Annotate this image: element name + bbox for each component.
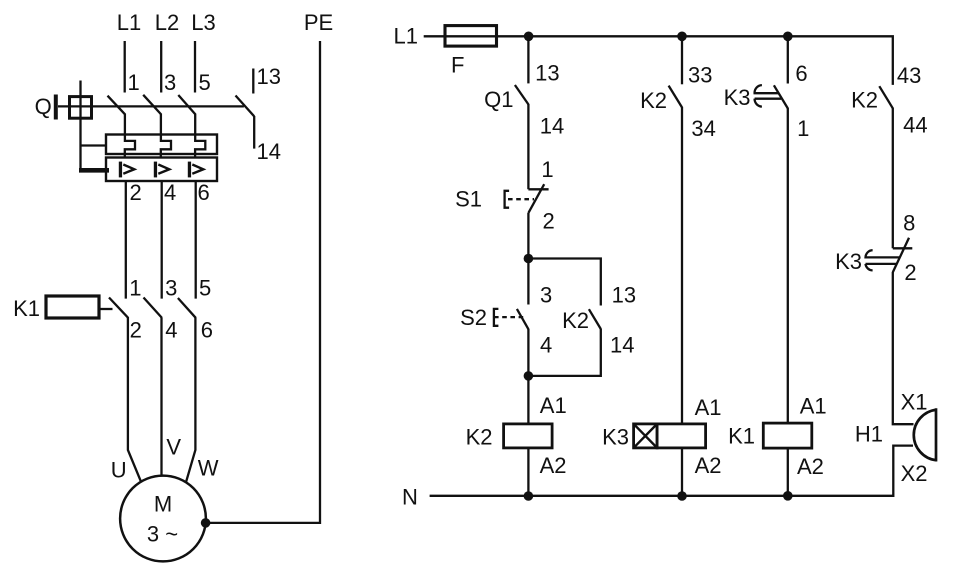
svg-text:X1: X1: [901, 390, 928, 415]
svg-text:1: 1: [129, 276, 141, 301]
svg-text:6: 6: [198, 180, 210, 205]
svg-text:6: 6: [795, 61, 807, 86]
wire N rail: [430, 446, 913, 496]
wire Q1 to S1: [527, 104, 529, 189]
contact K3 6-1 (NO delayed) blade: [774, 85, 788, 108]
svg-text:1: 1: [797, 116, 809, 141]
svg-text:V: V: [166, 435, 181, 460]
coil K3: [657, 424, 706, 448]
wire coil K2 to N: [527, 448, 529, 496]
contactor K1 main contact 1-2: [109, 298, 128, 318]
svg-text:K2: K2: [640, 88, 667, 113]
svg-text:14: 14: [257, 139, 281, 164]
svg-text:K2: K2: [466, 425, 493, 450]
motor M1 circle: [120, 476, 206, 562]
svg-text:A1: A1: [540, 393, 567, 418]
contact K2 43-44 blade: [879, 86, 893, 108]
svg-text:S2: S2: [460, 305, 487, 330]
horn H1: [914, 408, 936, 461]
svg-text:A2: A2: [797, 454, 824, 479]
svg-text:A2: A2: [540, 453, 567, 478]
svg-text:S1: S1: [455, 187, 482, 212]
svg-text:3: 3: [165, 276, 177, 301]
pushbutton S1 actuator bracket: [505, 191, 510, 208]
wire rail to Q1: [527, 36, 529, 83]
coil K1: [763, 423, 812, 448]
coil K2: [504, 424, 552, 448]
junction rail-K3 branch: [677, 32, 687, 42]
junction rail-K1 branch: [783, 32, 793, 42]
svg-text:F: F: [451, 53, 464, 78]
svg-text:K3: K3: [835, 249, 862, 274]
svg-text:33: 33: [688, 63, 712, 88]
pushbutton S2 actuator dashed link: [494, 316, 524, 318]
wire L2: [160, 41, 162, 93]
fuse F: [445, 26, 497, 46]
svg-text:K2: K2: [851, 88, 878, 113]
svg-text:3 ~: 3 ~: [147, 522, 178, 547]
svg-text:13: 13: [257, 64, 281, 89]
svg-text:W: W: [198, 456, 219, 481]
svg-text:2: 2: [543, 209, 555, 234]
contactor K1 main contact 3-4: [144, 298, 162, 318]
svg-text:L1: L1: [394, 24, 418, 49]
breaker Q handle bar: [54, 95, 58, 120]
wire K2 43-44 to K3 8: [892, 108, 894, 249]
svg-text:L1: L1: [117, 10, 141, 35]
svg-text:M: M: [154, 492, 172, 517]
pushbutton S1 (NC) crossbar: [528, 188, 548, 190]
contactor K1 main contact 5-6: [178, 298, 196, 318]
junction K2-N: [524, 491, 534, 501]
wire rail to K3 6: [787, 36, 789, 83]
svg-text:13: 13: [535, 61, 559, 86]
svg-text:Q1: Q1: [484, 87, 513, 112]
breaker Q pole 2 contact, pins 3-4: [143, 95, 171, 158]
pushbutton S2 actuator bracket: [494, 309, 499, 326]
breaker Q thermal release box: [106, 135, 217, 155]
svg-text:34: 34: [691, 116, 715, 141]
svg-text:N: N: [402, 485, 418, 510]
svg-text:1: 1: [128, 70, 140, 95]
magnetic release symbol I> pole 2: [154, 162, 170, 178]
svg-text:6: 6: [201, 318, 213, 343]
wire breaker to K1 pole 3: [195, 181, 197, 299]
svg-text:2: 2: [904, 260, 916, 285]
pushbutton S1 actuator dashed link: [508, 198, 534, 200]
svg-text:K3: K3: [724, 85, 751, 110]
contact Q1 (NO aux): [515, 85, 529, 104]
svg-text:K2: K2: [562, 308, 589, 333]
breaker Q trip linkage (thick): [79, 168, 109, 173]
svg-text:5: 5: [199, 70, 211, 95]
svg-text:K1: K1: [13, 296, 40, 321]
svg-text:13: 13: [612, 283, 636, 308]
breaker Q auxiliary contact 13-14: [236, 69, 255, 149]
svg-text:5: 5: [199, 276, 211, 301]
breaker Q pole 3 contact, pins 5-6: [178, 95, 205, 158]
contact K3 8-2 blade: [893, 238, 909, 272]
junction rail-K2 branch: [524, 32, 534, 42]
contact K2 13-14 (hold) blade: [589, 309, 601, 329]
svg-text:2: 2: [130, 318, 142, 343]
junction motor-PE: [201, 518, 211, 528]
svg-text:43: 43: [897, 63, 921, 88]
wire breaker to K1 pole 1: [125, 181, 127, 299]
breaker Q actuator box: [70, 97, 92, 119]
svg-text:4: 4: [165, 318, 177, 343]
wire S1 to S2: [527, 213, 529, 305]
pushbutton S1 blade: [528, 184, 544, 213]
wire K2 hold to junction: [528, 329, 600, 376]
magnetic release symbol I> pole 1: [119, 162, 135, 178]
svg-text:A2: A2: [695, 453, 722, 478]
svg-text:X2: X2: [901, 461, 928, 486]
wire K3 6-1 to coil K1: [787, 108, 789, 423]
svg-text:4: 4: [540, 333, 552, 358]
contact K3 6-1 delay symbol: [755, 85, 782, 107]
svg-text:U: U: [111, 458, 127, 483]
contact K3 8-2 (NC delayed) crossbar: [893, 247, 913, 249]
breaker Q magnetic release box: [106, 158, 217, 182]
svg-text:H1: H1: [855, 422, 883, 447]
wire L1 top rail: [424, 36, 893, 85]
wire K1 to motor U: [128, 317, 141, 482]
wire S2 to coil K2: [527, 329, 529, 424]
wire K1 to motor V: [160, 317, 162, 476]
wire coil K3 to N: [681, 448, 683, 496]
svg-text:L3: L3: [191, 10, 215, 35]
wire branch to K2 hold contact: [528, 259, 600, 306]
svg-text:3: 3: [540, 283, 552, 308]
svg-text:14: 14: [540, 114, 564, 139]
svg-text:1: 1: [541, 157, 553, 182]
wire K1 to motor W: [186, 317, 195, 482]
magnetic release symbol I> pole 3: [188, 162, 204, 178]
wire K2 33-34 to coil K3: [681, 107, 683, 424]
svg-text:14: 14: [610, 333, 634, 358]
contactor K1 link to contacts: [99, 308, 113, 310]
wire PE: [207, 41, 320, 523]
wire L3: [194, 41, 196, 93]
junction K3-N: [677, 491, 687, 501]
wire coil K1 to N: [787, 448, 789, 496]
svg-text:8: 8: [903, 211, 915, 236]
contactor K1 coil box: [46, 296, 99, 318]
contact K2 33-34 blade: [669, 86, 682, 108]
svg-text:PE: PE: [304, 10, 333, 35]
svg-text:3: 3: [164, 70, 176, 95]
svg-text:L2: L2: [155, 10, 179, 35]
svg-text:2: 2: [130, 180, 142, 205]
svg-text:44: 44: [903, 113, 927, 138]
svg-text:A1: A1: [800, 394, 827, 419]
wire rail to K2 33: [681, 36, 683, 84]
pushbutton S2 (NO) blade: [517, 309, 529, 329]
wire K3 8-2 to H1 X1: [893, 272, 914, 424]
coil K3 timer element (X box): [634, 424, 658, 448]
breaker Q actuator line (horizontal): [58, 105, 244, 107]
breaker Q actuator cross vertical / linkage: [79, 81, 81, 172]
svg-text:A1: A1: [695, 395, 722, 420]
wire L1: [124, 41, 126, 93]
junction S1-branch: [524, 254, 534, 264]
junction K1-N: [783, 491, 793, 501]
svg-text:4: 4: [164, 180, 176, 205]
svg-text:K3: K3: [602, 425, 629, 450]
breaker Q linkage stub to thermal box: [81, 144, 107, 146]
junction S2-hold: [524, 371, 534, 381]
svg-text:Q: Q: [35, 94, 52, 119]
contact K3 8-2 delay symbol: [866, 250, 900, 270]
breaker Q pole 1 contact, pins 1-2: [108, 96, 136, 158]
svg-text:K1: K1: [728, 424, 755, 449]
wire breaker to K1 pole 2: [161, 181, 163, 299]
